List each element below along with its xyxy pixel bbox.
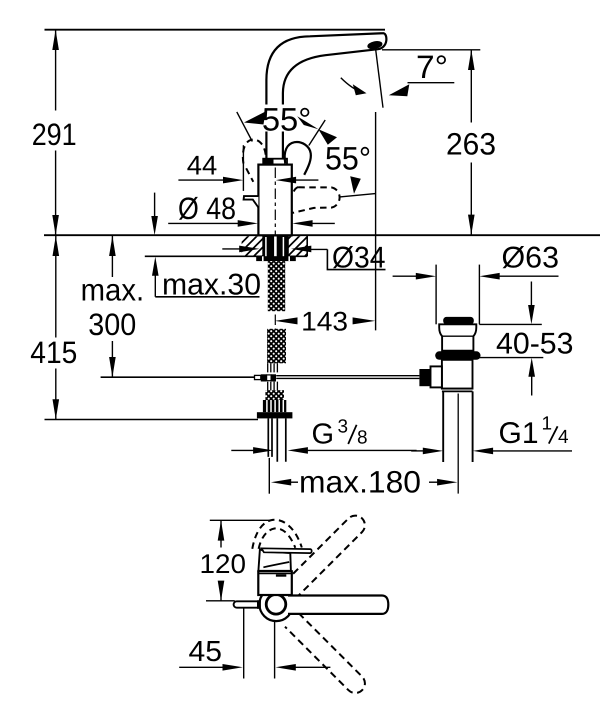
- dimension 291 top arrow: [52, 30, 59, 50]
- mounting nut white slots: [267, 400, 283, 412]
- svg-text:7°: 7°: [416, 49, 448, 85]
- drain coupling: [442, 389, 473, 392]
- pop-up rod double line to drain: [276, 376, 419, 379]
- dimension max180 right arrow (points right): [429, 481, 439, 483]
- drain centerline: [457, 394, 459, 494]
- thread label G1-1/4 fraction slash: [549, 426, 558, 443]
- dimension 45 right arrow: [294, 666, 330, 668]
- dimension diam48 left arrow: [238, 220, 258, 227]
- flange white slot left: [262, 256, 264, 261]
- 55 bowtie arrowhead lower: [318, 129, 337, 145]
- svg-text:300: 300: [88, 307, 136, 342]
- connector tube upper: [268, 363, 278, 372]
- lower mounting datum line (415 bottom): [45, 419, 259, 421]
- top view: rod collar block: [257, 600, 261, 609]
- drain diam63 right extension line: [478, 265, 480, 325]
- dimension 415 line: [55, 236, 57, 338]
- top view: body circle: [259, 588, 293, 622]
- dimension max300 bottom arrow: [109, 357, 116, 377]
- top reference line (spout height datum): [45, 29, 386, 31]
- svg-text:G1: G1: [499, 417, 539, 450]
- dimension 291 line: [55, 30, 57, 111]
- faucet body cap: [263, 159, 287, 165]
- dimension 120 line: [220, 520, 222, 547]
- shank white slot left: [265, 237, 267, 256]
- dimension 44 opposite arrow (points left at centerline): [276, 177, 319, 184]
- svg-text:143: 143: [301, 306, 348, 336]
- top view: spout tube: [288, 596, 388, 614]
- counter slab hatching left of faucet: [242, 236, 263, 256]
- threaded shank segment 1: [268, 261, 285, 311]
- svg-text:4: 4: [558, 427, 569, 448]
- drain tailpipe walls: [443, 391, 472, 462]
- spout outlet datum line (263 top): [382, 49, 480, 51]
- top view: pop-up rod stub: [234, 601, 260, 607]
- threaded shank segment 2: [267, 329, 286, 364]
- top view: 120 top extension line: [210, 519, 273, 521]
- svg-text:3: 3: [338, 417, 349, 438]
- thread label G3/8 fraction slash: [348, 425, 356, 444]
- top view: handle paddle inner curve: [263, 562, 289, 567]
- drain side port housing: [431, 366, 442, 387]
- dimension 291 bottom arrow: [52, 215, 59, 235]
- flange white slot right: [288, 256, 290, 261]
- drain diam63 left extension line: [435, 265, 437, 325]
- handle dashed horizontal lobe (side position): [293, 187, 340, 213]
- dimension 40-53 top arrow: [530, 282, 532, 308]
- drain body: [442, 360, 473, 389]
- top view: dashed spout lower-right position: [285, 613, 365, 693]
- leader line from dashed lobe tip to extension line: [340, 194, 376, 197]
- mounting nut: [263, 400, 286, 412]
- handle left dashed lobe inner edge: [246, 168, 253, 182]
- svg-text:G: G: [312, 419, 335, 451]
- top view: body top second line: [258, 573, 292, 575]
- 55 right tick line: [309, 120, 325, 146]
- dimension diam48 line: [168, 222, 239, 224]
- top view: dashed swung handle inner arc: [259, 528, 296, 548]
- dimension diam34 leader bracket: [327, 249, 385, 269]
- supply hose 1: [268, 418, 272, 457]
- 55 bowtie arrowhead upper: [297, 116, 318, 129]
- spout upper outline: [266, 33, 386, 104]
- pop-up rod knob (side view): [244, 196, 259, 207]
- 7 degree arc arrowhead: [353, 84, 367, 95]
- counter top line: [44, 234, 600, 236]
- svg-text:263: 263: [446, 127, 496, 162]
- dimension 44 extension line: [242, 145, 244, 191]
- handle left dashed lobe (up position): [243, 140, 266, 164]
- drain flange neck line: [442, 335, 473, 337]
- dimension 263 line: [470, 50, 472, 123]
- rod cross fitting right block: [271, 374, 276, 381]
- svg-text:291: 291: [32, 117, 77, 152]
- right 55 down arrowhead: [350, 176, 361, 193]
- 7 degree vertical extension line down to 143 dim: [375, 112, 377, 330]
- drain flange: [439, 324, 476, 350]
- dimension 45 left extension line: [243, 608, 245, 679]
- svg-text:44: 44: [187, 150, 218, 180]
- counter slab hatching right of faucet: [289, 236, 308, 256]
- svg-text:Ø34: Ø34: [332, 242, 386, 275]
- dimension 143 left arrow (points left at centerline): [275, 317, 298, 324]
- top view: dashed spout upper-right position: [285, 516, 365, 596]
- svg-text:Ø63: Ø63: [502, 241, 560, 274]
- top view: dashed swung handle outer arc: [252, 520, 301, 549]
- dimension max30 leader underline: [155, 296, 259, 298]
- svg-text:415: 415: [30, 335, 77, 370]
- dimension 415 bottom arrow: [53, 399, 60, 419]
- faucet body cap black part: [263, 159, 273, 165]
- dimension diam63 left arrow: [393, 275, 418, 277]
- faucet body centerline: [274, 168, 276, 334]
- drain side port knob (black): [419, 369, 431, 386]
- svg-text:max.30: max.30: [162, 269, 261, 302]
- dimension diam48 right arrow: [312, 222, 335, 224]
- svg-text:Ø 48: Ø 48: [178, 191, 236, 226]
- mounting flange under counter (black): [256, 256, 296, 261]
- dimension 120 bottom arrow: [218, 581, 225, 601]
- dimension G3/8 left arrow: [231, 449, 255, 451]
- faucet shank through counter (black): [262, 235, 289, 256]
- dimension 143 right arrow: [353, 317, 376, 324]
- dimension diam34 right arrow and leader: [310, 248, 328, 250]
- 7 degree leader line: [408, 82, 455, 84]
- 7 degree angle arc: [341, 78, 363, 93]
- spout riser right wall lower segment: [282, 132, 284, 159]
- dimension 263 bottom arrow: [468, 215, 475, 235]
- dimension 40-53 bottom tick line: [476, 357, 544, 359]
- drain o-ring (black): [435, 351, 480, 360]
- svg-text:45: 45: [189, 636, 223, 668]
- dimension max300 line: [111, 236, 113, 277]
- svg-text:40-53: 40-53: [496, 327, 574, 360]
- svg-text:55°: 55°: [325, 141, 371, 177]
- top view: handle lever arm: [262, 548, 312, 553]
- svg-text:8: 8: [357, 428, 368, 449]
- rod cross fitting center: [267, 375, 272, 381]
- svg-text:55°: 55°: [262, 101, 312, 137]
- dimension 40-53 bottom arrow: [531, 375, 533, 396]
- dimension max180 left arrow (points left): [289, 481, 298, 483]
- dimension max180 left extension line: [268, 458, 270, 494]
- svg-text:max.: max.: [81, 273, 145, 308]
- spout riser left wall lower segment: [265, 132, 267, 164]
- threaded shank segment 3: [265, 390, 284, 400]
- dimension G3/8 right arrow: [306, 449, 417, 451]
- 55 left arrowhead: [244, 112, 266, 125]
- dimension diam34 left arrow: [222, 248, 240, 250]
- dimension 40-53 top tick line: [479, 323, 542, 325]
- shank white slot right: [282, 237, 284, 256]
- drain plug cap (black): [443, 317, 474, 324]
- dimension G1-1/4 left arrow: [411, 450, 425, 452]
- top view: body black notch: [276, 574, 286, 576]
- dimension 45 left arrow: [179, 666, 224, 668]
- counter bottom line: [145, 255, 307, 257]
- dimension 45 right extension line: [274, 621, 276, 678]
- 7 degree leader arrowhead: [389, 84, 410, 96]
- dimension 120 top arrow: [218, 520, 225, 540]
- supply hose 2: [277, 418, 286, 461]
- dimension max30 top arrow: [154, 193, 156, 218]
- top view: faucet body block: [258, 571, 292, 595]
- 7 degree outlet axis line: [376, 50, 383, 108]
- dimension max30 bottom arrow: [154, 275, 156, 297]
- mounting nut flange: [257, 412, 293, 418]
- dimension G1-1/4 right arrow: [491, 450, 572, 452]
- rod cross fitting left block: [261, 374, 267, 381]
- top view: 120 bottom extension line: [206, 600, 235, 602]
- top view: inner cartridge ring: [266, 595, 286, 615]
- shank white slot center: [274, 237, 277, 257]
- faucet body: [258, 165, 291, 236]
- spout aerator tip: [367, 41, 382, 50]
- pop-up rod end connector: [255, 375, 261, 379]
- dimension 415 top arrow: [53, 236, 60, 256]
- handle solid lobe: [285, 142, 311, 175]
- dimension 44 line: [178, 179, 224, 181]
- dimension 44 right-pointing arrow: [223, 177, 243, 184]
- dimension 263 top arrow: [468, 50, 475, 70]
- dimension max300 top arrow: [109, 236, 116, 256]
- pop-up rod horizontal line / max300 datum: [101, 376, 255, 378]
- connector tube lower: [268, 382, 278, 391]
- svg-text:120: 120: [200, 549, 247, 579]
- svg-text:1: 1: [542, 414, 553, 435]
- top view: handle paddle: [258, 549, 291, 571]
- svg-text:max.180: max.180: [299, 464, 421, 499]
- counter slab right edge: [306, 235, 308, 256]
- 55 left leader tick line: [237, 112, 253, 142]
- dimension diam63 right arrow: [498, 275, 559, 277]
